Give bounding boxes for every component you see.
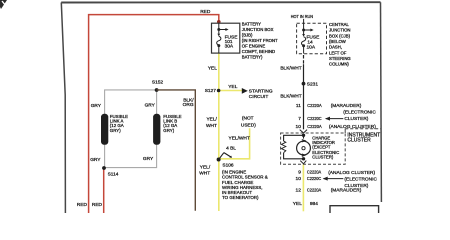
svg-text:(IN RIGHT FRONT: (IN RIGHT FRONT <box>242 38 278 43</box>
svg-text:GRY: GRY <box>145 102 156 108</box>
svg-text:S127: S127 <box>205 88 217 94</box>
svg-text:(ELECTRONIC: (ELECTRONIC <box>344 177 377 183</box>
svg-text:YEL: YEL <box>228 84 237 90</box>
svg-text:ORG: ORG <box>183 102 194 108</box>
svg-text:COLUMN): COLUMN) <box>329 62 349 67</box>
svg-text:4 BL: 4 BL <box>226 145 236 151</box>
svg-text:C2220C: C2220C <box>307 116 322 122</box>
svg-text:(BELOW: (BELOW <box>329 39 346 44</box>
svg-text:YEL/: YEL/ <box>200 164 211 170</box>
svg-text:C2220A: C2220A <box>307 124 322 130</box>
svg-text:S114: S114 <box>108 171 119 177</box>
svg-text:(MARAUDER): (MARAUDER) <box>331 188 362 194</box>
svg-text:HOT IN RUN: HOT IN RUN <box>291 14 313 19</box>
svg-text:C2220A: C2220A <box>307 103 322 109</box>
svg-text:(ANALOG CLUSTER): (ANALOG CLUSTER) <box>328 170 375 176</box>
svg-text:CENTRAL: CENTRAL <box>329 22 349 27</box>
svg-text:(MARAUDER): (MARAUDER) <box>331 103 362 109</box>
svg-text:C2220C: C2220C <box>307 176 322 182</box>
svg-text:GRY): GRY) <box>110 128 121 133</box>
svg-text:C2220A: C2220A <box>307 169 322 175</box>
svg-text:(ELECTRONIC: (ELECTRONIC <box>343 110 376 116</box>
svg-text:CONTROL SENSOR &: CONTROL SENSOR & <box>222 175 268 180</box>
svg-text:BATTERY: BATTERY <box>242 22 261 27</box>
svg-text:WHT: WHT <box>199 171 210 177</box>
svg-text:984: 984 <box>310 201 318 207</box>
svg-text:11: 11 <box>296 103 301 109</box>
svg-text:CIRCUIT: CIRCUIT <box>249 94 269 100</box>
svg-text:GRY: GRY <box>90 157 101 163</box>
svg-text:LEFT OF: LEFT OF <box>329 50 347 55</box>
svg-text:JUNCTION BOX: JUNCTION BOX <box>242 27 274 32</box>
svg-text:12: 12 <box>296 188 302 194</box>
svg-text:OF ENGINE: OF ENGINE <box>242 44 266 49</box>
svg-text:USED): USED) <box>241 122 256 128</box>
svg-text:RED: RED <box>77 202 88 208</box>
svg-text:10: 10 <box>296 124 302 130</box>
svg-text:YEL: YEL <box>293 201 302 207</box>
svg-text:COMPT, BEHIND: COMPT, BEHIND <box>242 49 275 54</box>
svg-text:JUNCTION: JUNCTION <box>329 28 351 33</box>
svg-text:(ANALOG CLUSTER): (ANALOG CLUSTER) <box>329 124 376 130</box>
svg-text:BOX (CJB): BOX (CJB) <box>329 33 351 38</box>
svg-text:BLK/WHT: BLK/WHT <box>280 94 301 100</box>
svg-text:GRY: GRY <box>91 103 102 109</box>
svg-text:CLUSTER): CLUSTER) <box>312 155 334 160</box>
svg-text:YEL: YEL <box>208 66 217 72</box>
svg-text:30A: 30A <box>225 44 234 50</box>
svg-text:RED: RED <box>200 9 211 15</box>
svg-text:(IN ENGINE: (IN ENGINE <box>222 169 246 174</box>
svg-text:TO GENERATOR): TO GENERATOR) <box>222 195 259 200</box>
svg-text:YEL/: YEL/ <box>206 116 217 122</box>
svg-text:CLUSTER: CLUSTER <box>347 137 371 143</box>
svg-text:STEERING: STEERING <box>329 56 351 61</box>
svg-text:DASH,: DASH, <box>329 45 342 50</box>
svg-text:GRY): GRY) <box>163 128 174 133</box>
svg-text:S231: S231 <box>307 81 319 87</box>
svg-text:14: 14 <box>307 39 313 45</box>
svg-text:STARTING: STARTING <box>249 88 273 94</box>
svg-text:RED: RED <box>92 202 103 208</box>
svg-text:10: 10 <box>296 176 302 182</box>
svg-text:CLUSTER): CLUSTER) <box>344 116 368 122</box>
svg-text:S106: S106 <box>222 163 234 169</box>
svg-text:WHT: WHT <box>206 123 217 129</box>
svg-text:GRY: GRY <box>143 156 154 162</box>
svg-text:9: 9 <box>298 169 301 175</box>
svg-text:YEL/WHT: YEL/WHT <box>229 136 250 142</box>
svg-text:C2220A: C2220A <box>307 188 322 194</box>
svg-text:(NOT: (NOT <box>242 116 254 122</box>
svg-text:7: 7 <box>298 116 301 122</box>
svg-text:(BJB): (BJB) <box>242 33 253 38</box>
svg-text:S152: S152 <box>152 80 164 86</box>
svg-text:BATTERY): BATTERY) <box>242 55 263 60</box>
svg-text:BLK/WHT: BLK/WHT <box>280 66 301 72</box>
svg-text:10A: 10A <box>307 45 316 51</box>
svg-text:FUEL CHARGE: FUEL CHARGE <box>222 180 253 185</box>
